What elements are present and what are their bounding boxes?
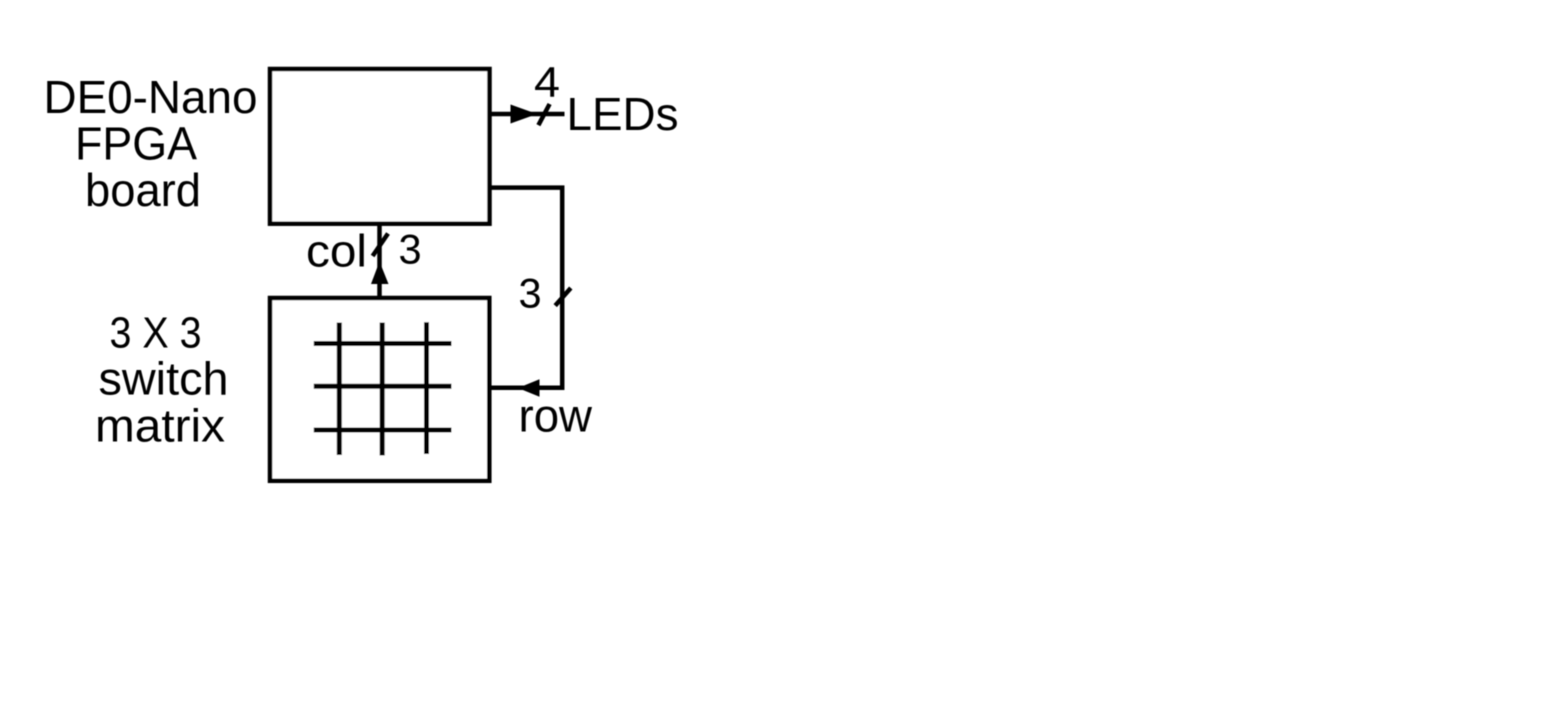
svg-text:switch: switch	[99, 353, 229, 405]
arrowhead col bus (points up)	[371, 262, 389, 285]
svg-text:4: 4	[534, 59, 560, 106]
svg-text:3: 3	[399, 226, 422, 273]
svg-text:FPGA: FPGA	[75, 118, 197, 170]
wire row bus (out of FPGA right, down, left into switch matrix)	[490, 188, 562, 388]
label DE0-Nano FPGA board	[44, 71, 258, 216]
switch matrix grid: horizontal wire row3	[314, 428, 452, 433]
bus-width slash on row bus	[555, 288, 571, 306]
svg-text:row: row	[519, 390, 593, 442]
svg-text:matrix: matrix	[95, 400, 225, 452]
switch matrix block	[270, 298, 489, 481]
arrowhead row bus (points left)	[518, 379, 540, 396]
svg-text:col: col	[306, 226, 367, 277]
svg-text:3 X 3: 3 X 3	[110, 309, 202, 358]
svg-text:LEDs: LEDs	[567, 88, 679, 140]
switch matrix grid: horizontal wire row2	[314, 384, 452, 389]
svg-text:3: 3	[519, 270, 542, 317]
switch matrix grid: vertical wire col1	[337, 323, 342, 456]
bus-width slash on col bus	[373, 234, 388, 257]
bus-width slash on LED bus	[538, 104, 549, 125]
wire col bus (vertical up)	[377, 224, 382, 297]
label 3 X 3 switch matrix	[95, 309, 229, 452]
switch matrix grid: vertical wire col2	[380, 323, 385, 456]
svg-text:board: board	[85, 164, 201, 216]
svg-text:DE0-Nano: DE0-Nano	[44, 71, 258, 123]
FPGA board block U1	[270, 69, 490, 224]
wire LED bus	[490, 112, 565, 117]
arrowhead LED bus (points right)	[511, 105, 538, 124]
switch matrix grid: horizontal wire row1	[314, 341, 452, 346]
switch matrix grid: vertical wire col3	[424, 322, 429, 454]
